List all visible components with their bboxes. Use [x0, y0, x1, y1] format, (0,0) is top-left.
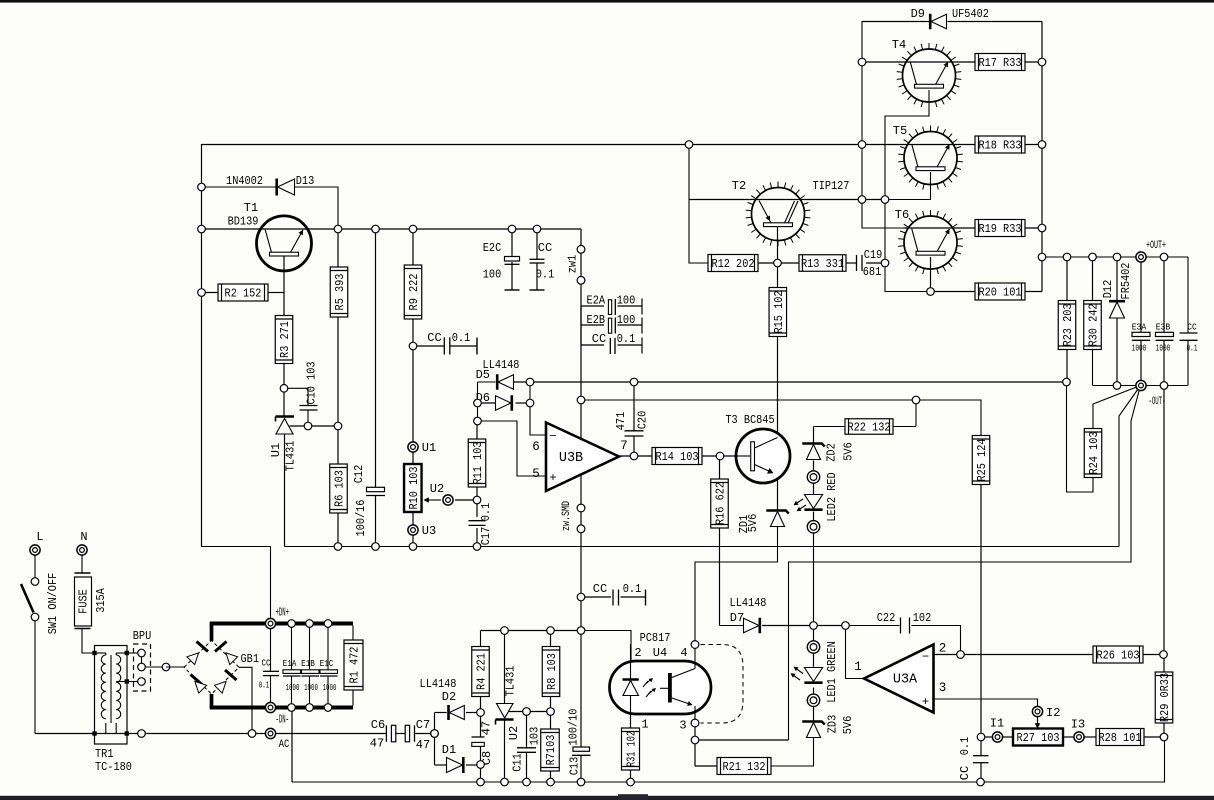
- wire R8 column: [550, 631, 552, 647]
- wire T2 chord: [689, 199, 885, 201]
- svg-text:N: N: [80, 530, 87, 544]
- diode D5 LL4148: [498, 375, 514, 390]
- svg-text:R31 102: R31 102: [625, 731, 639, 767]
- svg-text:R24 103: R24 103: [1087, 431, 1101, 474]
- capacitor C6 47: [385, 725, 387, 742]
- wire R21 row: [695, 765, 717, 767]
- svg-text:LED2 RED: LED2 RED: [825, 472, 839, 521]
- svg-text:1000: 1000: [1156, 343, 1171, 354]
- wire R25 top corner: [916, 400, 981, 440]
- wire U3B out to R14: [619, 455, 652, 457]
- node R3 top junction: [280, 385, 288, 393]
- svg-text:LED1 GREEN: LED1 GREEN: [825, 641, 839, 703]
- svg-text:47: 47: [480, 721, 494, 735]
- wire C11 column: [526, 712, 528, 748]
- resistor R26: [1093, 646, 1143, 663]
- wire R5 column: [337, 229, 339, 267]
- wire box bottom to bridge: [202, 547, 271, 625]
- svg-text:U3: U3: [422, 524, 436, 538]
- resistor R18: [975, 136, 1025, 153]
- svg-text:U3B: U3B: [559, 451, 583, 466]
- svg-text:E2B: E2B: [587, 313, 606, 327]
- wire U2 ref row: [509, 711, 551, 713]
- wire C10 stub: [284, 388, 308, 405]
- transistor T1 BD139: [257, 216, 312, 271]
- LED1 GREEN: [804, 668, 822, 682]
- wire x581 column mid: [580, 475, 582, 505]
- svg-text:T2: T2: [732, 179, 746, 193]
- bridge diode triangles: [187, 653, 199, 665]
- wire D6 row: [478, 402, 496, 404]
- LED2 RED: [804, 495, 822, 509]
- wire ZD3 to LED1: [813, 707, 815, 723]
- svg-text:FR5402: FR5402: [1119, 263, 1133, 300]
- wire rail y546 right corner up + diagonal to -OUT: [1119, 386, 1141, 547]
- svg-text:0.1: 0.1: [479, 503, 493, 522]
- pot wiper arrow U2: [426, 499, 441, 501]
- resistor R29: [1155, 672, 1173, 723]
- wire T4 emitter chain: [885, 90, 931, 292]
- svg-text:R29 0R33: R29 0R33: [1158, 673, 1172, 722]
- svg-text:R9 222: R9 222: [407, 274, 421, 311]
- opto phototransistor: [668, 673, 672, 703]
- wire E2CC stub: [581, 344, 604, 346]
- wire R23 node to R24 loop: [1067, 382, 1094, 492]
- svg-text:-OUT-: -OUT-: [1149, 396, 1166, 408]
- capacitor C17 0.1: [469, 520, 486, 522]
- wire R11 column: [476, 421, 478, 439]
- wire E2A cap right leads: [618, 305, 643, 307]
- terminal -OUT: [1136, 380, 1146, 390]
- svg-text:0.1: 0.1: [536, 268, 555, 282]
- svg-text:C6: C6: [371, 718, 385, 732]
- svg-text:-DN-: -DN-: [276, 713, 290, 727]
- wire E2 right ticks: [641, 299, 643, 315]
- wire R25 column: [980, 481, 982, 738]
- svg-text:6: 6: [532, 440, 540, 454]
- capacitor E2C 100: [505, 257, 520, 262]
- svg-text:R26 103: R26 103: [1096, 649, 1139, 663]
- wire R4 rail: [480, 631, 482, 647]
- wire rail y382: [514, 381, 1067, 383]
- diode D2 LL4148: [449, 705, 464, 719]
- wire I3-R28 row: [1084, 736, 1096, 738]
- wire T5 emitter: [885, 172, 931, 200]
- svg-text:TR1: TR1: [95, 747, 114, 761]
- LED1 ring bottom: [807, 694, 819, 706]
- svg-text:C22: C22: [877, 611, 896, 625]
- wire -DN- down to bottom rail: [291, 708, 293, 783]
- wire ZD2-LED2 chain: [813, 461, 815, 472]
- wire R27-I3 row: [1063, 736, 1074, 738]
- connector zw1: [577, 245, 585, 253]
- svg-text:2: 2: [634, 646, 641, 660]
- svg-text:LL4148: LL4148: [730, 596, 767, 610]
- wire D1D2 vertical: [434, 713, 436, 766]
- resistor R8: [542, 647, 560, 697]
- svg-text:R10 103: R10 103: [407, 466, 421, 509]
- svg-text:L: L: [36, 530, 43, 544]
- svg-text:I3: I3: [1071, 718, 1085, 732]
- wire E3A column: [1140, 257, 1142, 332]
- capacitor E2B 100: [608, 318, 611, 333]
- top border bar: [0, 0, 1214, 3]
- capacitor E1C 1000: [327, 626, 329, 670]
- svg-text:R15 102: R15 102: [772, 290, 786, 333]
- resistor R12: [708, 255, 758, 272]
- svg-text:R7103: R7103: [544, 735, 558, 766]
- svg-text:5: 5: [532, 467, 540, 481]
- svg-text:CC: CC: [593, 582, 607, 596]
- svg-text:3: 3: [679, 719, 686, 733]
- svg-text:R19 R33: R19 R33: [978, 222, 1021, 236]
- svg-text:E3A: E3A: [1132, 322, 1147, 333]
- svg-text:R6 103: R6 103: [333, 470, 347, 507]
- zener ZD2 5V6: [806, 445, 820, 460]
- wire T4 row right: [1025, 61, 1042, 63]
- diode D9 UF5402: [931, 14, 947, 29]
- svg-text:0.1: 0.1: [452, 331, 471, 345]
- svg-text:C7: C7: [416, 718, 430, 732]
- capacitor E1A 1000: [291, 626, 293, 670]
- wire rail y229: [202, 228, 582, 230]
- wire R16 column: [719, 456, 721, 479]
- LED2 ring bottom: [807, 521, 819, 533]
- svg-text:1N4002: 1N4002: [226, 174, 263, 188]
- wire T5 chord: [862, 144, 975, 146]
- resistor R7: [541, 729, 560, 771]
- wire top rail y144: [202, 144, 863, 146]
- terminal -DN-: [265, 702, 275, 712]
- svg-text:R13 331: R13 331: [801, 257, 844, 271]
- svg-text:R17 R33: R17 R33: [978, 56, 1021, 70]
- svg-text:E1B: E1B: [301, 659, 315, 669]
- svg-text:102: 102: [913, 611, 932, 625]
- transformer terminals: [92, 651, 96, 655]
- wire rail y400: [581, 399, 916, 401]
- wire D5 branch: [478, 381, 496, 383]
- svg-text:R3 271: R3 271: [278, 321, 292, 358]
- opto pin4 circle: [691, 641, 699, 649]
- junction nodes: [198, 183, 206, 191]
- transistor T6: [904, 216, 957, 269]
- wire C6C7 middle: [396, 733, 406, 735]
- wire termination tick: [476, 338, 478, 355]
- capacitor C22 102: [900, 618, 902, 634]
- svg-text:E1C: E1C: [320, 659, 334, 669]
- wire I2 arrow lead: [1037, 717, 1039, 726]
- resistor R23: [1058, 301, 1076, 350]
- svg-text:0.1: 0.1: [958, 737, 972, 756]
- wire R9 column: [412, 229, 414, 265]
- resistor R4: [472, 647, 490, 697]
- transistor T5: [904, 132, 957, 185]
- wire AC rail: [35, 733, 386, 735]
- wire E2C CC columns: [511, 229, 513, 257]
- svg-text:1: 1: [641, 718, 648, 732]
- optocoupler U4 PC817 body: [610, 661, 712, 714]
- resistor R25: [972, 436, 990, 485]
- svg-text:5V6: 5V6: [842, 442, 856, 461]
- svg-text:100: 100: [617, 294, 636, 308]
- fuse FUSE 3.15A: [81, 555, 83, 573]
- svg-text:TL431: TL431: [284, 441, 298, 472]
- svg-text:R21 132: R21 132: [722, 760, 765, 774]
- svg-text:U4: U4: [653, 646, 667, 660]
- transistor T4: [903, 49, 956, 102]
- terminal I3: [1074, 732, 1084, 742]
- svg-text:0.1: 0.1: [1187, 343, 1198, 354]
- capacitor CC 0.1 out: [1180, 332, 1198, 334]
- wire zw1 column: [580, 229, 582, 400]
- wire CC cap at I1: [980, 737, 982, 756]
- wire R12-R13 node: [758, 262, 799, 264]
- svg-text:BPU: BPU: [133, 629, 152, 643]
- wire CC stub at R9: [413, 345, 444, 347]
- wire R2 stub: [202, 292, 219, 294]
- wire R14 to T3: [702, 455, 737, 457]
- terminal +OUT: [1136, 252, 1146, 262]
- wire U4 pin2 feed: [581, 631, 631, 662]
- svg-text:R14 103: R14 103: [655, 450, 698, 464]
- wire C22 row: [846, 625, 900, 627]
- svg-text:R2 152: R2 152: [225, 287, 262, 301]
- diode D6: [496, 396, 512, 411]
- wire D5 to D6 link: [477, 382, 479, 403]
- svg-text:TC-180: TC-180: [95, 760, 132, 774]
- svg-text:1000: 1000: [323, 683, 337, 693]
- svg-text:47: 47: [416, 738, 430, 752]
- opto light arrows: [643, 679, 652, 688]
- svg-text:R28 101: R28 101: [1098, 731, 1141, 745]
- capacitor CC 0.1 at I1: [973, 755, 989, 757]
- wire T2 feed column x689: [689, 145, 708, 264]
- svg-text:1000: 1000: [286, 683, 300, 693]
- capacitor E3A 1000: [1132, 332, 1150, 336]
- wire R28-node row: [1144, 736, 1164, 738]
- wire rail y562 segment A: [695, 528, 778, 645]
- wire bridge right corner to AC: [239, 667, 252, 733]
- capacitor E3B 1000: [1156, 332, 1174, 336]
- wire D12 column: [1116, 257, 1118, 300]
- potentiometer R10 103: [404, 464, 422, 512]
- wire C20 column: [633, 382, 635, 431]
- svg-text:R12 202: R12 202: [711, 257, 754, 271]
- wire R4 column lower: [480, 697, 482, 713]
- svg-text:R30 242: R30 242: [1087, 303, 1101, 346]
- wire E2A stub: [581, 305, 604, 307]
- svg-text:471: 471: [614, 412, 628, 431]
- wire U2 column: [504, 631, 506, 704]
- resistor R6: [330, 464, 348, 513]
- svg-text:681: 681: [863, 265, 882, 279]
- diode D12 FR5402: [1109, 302, 1124, 318]
- wire zw column to E2 caps: [580, 306, 582, 346]
- bridge diode bars: [197, 642, 209, 652]
- resistor R21: [717, 758, 771, 775]
- wire bottom rail y782: [292, 737, 1165, 782]
- svg-text:R22 132: R22 132: [847, 421, 890, 435]
- svg-text:+DN+: +DN+: [276, 606, 290, 620]
- wire -DN- thick rail: [210, 694, 214, 708]
- bridge rectifier GB1: [184, 641, 239, 695]
- wire T6 chord: [904, 227, 976, 229]
- svg-text:D13: D13: [296, 174, 315, 188]
- capacitor C8 47: [472, 736, 485, 738]
- svg-text:T4: T4: [892, 38, 906, 52]
- svg-text:+: +: [549, 471, 556, 485]
- capacitor C19 681: [856, 255, 858, 271]
- wire C13 column: [580, 631, 582, 748]
- node at AC rail: [248, 730, 256, 738]
- wire D1 row: [435, 764, 447, 766]
- svg-text:U1: U1: [422, 441, 436, 455]
- wire U3A pin3 row: [934, 699, 1038, 706]
- svg-text:1: 1: [854, 660, 862, 674]
- svg-text:GB1: GB1: [241, 652, 260, 666]
- wire D7 row: [720, 625, 744, 627]
- svg-text:CC: CC: [538, 241, 552, 255]
- terminal U3 test point: [408, 525, 418, 535]
- svg-text:T3 BC845: T3 BC845: [725, 413, 774, 427]
- terminal I2: [1032, 706, 1042, 716]
- svg-text:C13: C13: [568, 757, 582, 776]
- op-amp U3B: [546, 423, 619, 492]
- terminal N: [77, 545, 87, 555]
- capacitor E2A 100: [608, 300, 611, 315]
- svg-text:R1 472: R1 472: [348, 647, 362, 684]
- svg-text:0.1: 0.1: [617, 332, 636, 346]
- svg-text:D2: D2: [442, 690, 456, 704]
- wire R31 column: [630, 714, 632, 728]
- svg-text:I2: I2: [1046, 706, 1060, 720]
- svg-text:+: +: [922, 695, 929, 709]
- svg-text:103: 103: [528, 727, 542, 746]
- wire -OUT down column x1164: [1163, 386, 1165, 655]
- capacitor C7 47: [405, 725, 409, 742]
- resistor R27 shunt: [1013, 729, 1063, 746]
- svg-text:100: 100: [617, 313, 636, 327]
- wire R13 to C19: [846, 262, 857, 264]
- wire C8 top: [480, 713, 482, 738]
- svg-text:R11 103: R11 103: [471, 441, 485, 484]
- resistor R2: [218, 284, 268, 301]
- zener ZD1 5V6: [770, 512, 784, 527]
- svg-text:4: 4: [680, 646, 687, 660]
- wire D13 row: [202, 186, 277, 188]
- svg-text:U1: U1: [269, 443, 283, 457]
- svg-text:E3B: E3B: [1156, 322, 1171, 333]
- resistor R28: [1096, 729, 1144, 746]
- wire U4 pin3 chain: [694, 714, 696, 719]
- wire U3A pin1 riser: [846, 626, 865, 679]
- svg-text:E2C: E2C: [483, 241, 502, 255]
- resistor R5: [330, 267, 348, 317]
- svg-text:R8 103: R8 103: [545, 653, 559, 690]
- svg-text:0.1: 0.1: [623, 582, 642, 596]
- resistor R14: [652, 448, 702, 465]
- shunt reg U2 TL431: [497, 704, 514, 719]
- wire bank left edge: [862, 21, 904, 228]
- svg-text:315A: 315A: [94, 588, 108, 613]
- wire BPU to bridge: [166, 666, 184, 668]
- capacitor CC 0.1 bridge: [263, 670, 279, 672]
- wire I1-R27 row: [981, 736, 992, 738]
- shunt reg U1 TL431: [276, 415, 295, 418]
- wire U3A pin2 row: [934, 654, 1094, 656]
- svg-text:D9: D9: [911, 7, 925, 21]
- svg-text:R25 124: R25 124: [975, 438, 989, 481]
- svg-text:ZD2: ZD2: [825, 443, 839, 462]
- capacitor CC 0.1 at E2C: [530, 258, 545, 260]
- wire CC stub at 597: [581, 596, 611, 598]
- resistor R24: [1084, 429, 1102, 478]
- svg-text:R27 103: R27 103: [1016, 731, 1059, 745]
- terminal I1: [992, 732, 1002, 742]
- svg-text:R20 101: R20 101: [978, 286, 1021, 300]
- svg-text:7: 7: [620, 439, 628, 453]
- wire rail y562 segment B + corner to -OUT: [789, 386, 1141, 741]
- svg-text:C10 103: C10 103: [305, 361, 319, 404]
- svg-text:CC: CC: [427, 331, 441, 345]
- bottom border bar: [0, 796, 1214, 800]
- resistor R31: [622, 728, 640, 770]
- resistor R20: [975, 283, 1025, 300]
- capacitor CC 0.1 mid: [612, 590, 614, 606]
- resistor R16: [711, 479, 729, 528]
- opto pin3 circle: [691, 719, 699, 727]
- wire D6 node column to pin6: [530, 382, 546, 435]
- svg-text:−: −: [922, 650, 929, 664]
- wire ZD2 column top: [915, 400, 917, 427]
- svg-text:UF5402: UF5402: [952, 7, 989, 21]
- svg-text:T1: T1: [244, 201, 258, 215]
- wire R24 top + diagonal to -OUT: [1093, 386, 1141, 429]
- svg-text:BD139: BD139: [228, 215, 259, 229]
- resistor R13: [799, 255, 846, 272]
- svg-text:C19: C19: [864, 248, 883, 262]
- zener ZD3 5V6: [806, 723, 820, 738]
- wire T3 emitter to ZD1: [777, 482, 779, 511]
- terminal U1 test point: [408, 442, 418, 452]
- svg-text:TL431: TL431: [504, 666, 518, 697]
- transistor T2 TIP127: [752, 188, 805, 241]
- svg-text:zw.SMD: zw.SMD: [561, 501, 573, 531]
- svg-text:U3A: U3A: [893, 673, 918, 688]
- terminal L: [30, 545, 40, 555]
- svg-text:R4 221: R4 221: [475, 653, 489, 690]
- svg-text:R18 R33: R18 R33: [978, 139, 1021, 153]
- svg-text:C17: C17: [479, 527, 493, 546]
- wire T4 chord: [862, 61, 975, 63]
- LED1 ring top: [807, 641, 819, 653]
- wire R20 row: [931, 291, 976, 293]
- svg-text:E1A: E1A: [283, 659, 297, 669]
- wire D2 row: [435, 712, 447, 714]
- resistor R19: [975, 220, 1025, 237]
- svg-text:2: 2: [939, 642, 947, 656]
- diode D7 LL4148: [744, 618, 760, 633]
- svg-text:CC: CC: [1187, 322, 1197, 333]
- svg-text:CC: CC: [262, 659, 271, 669]
- capacitor CC 0.1 at E2B: [609, 338, 611, 354]
- label zw.SMD: [577, 504, 585, 512]
- svg-text:zw1: zw1: [566, 255, 580, 274]
- resistor R15: [769, 288, 787, 337]
- svg-text:100/10: 100/10: [567, 709, 581, 746]
- svg-text:T6: T6: [895, 208, 909, 222]
- svg-text:I1: I1: [990, 717, 1004, 731]
